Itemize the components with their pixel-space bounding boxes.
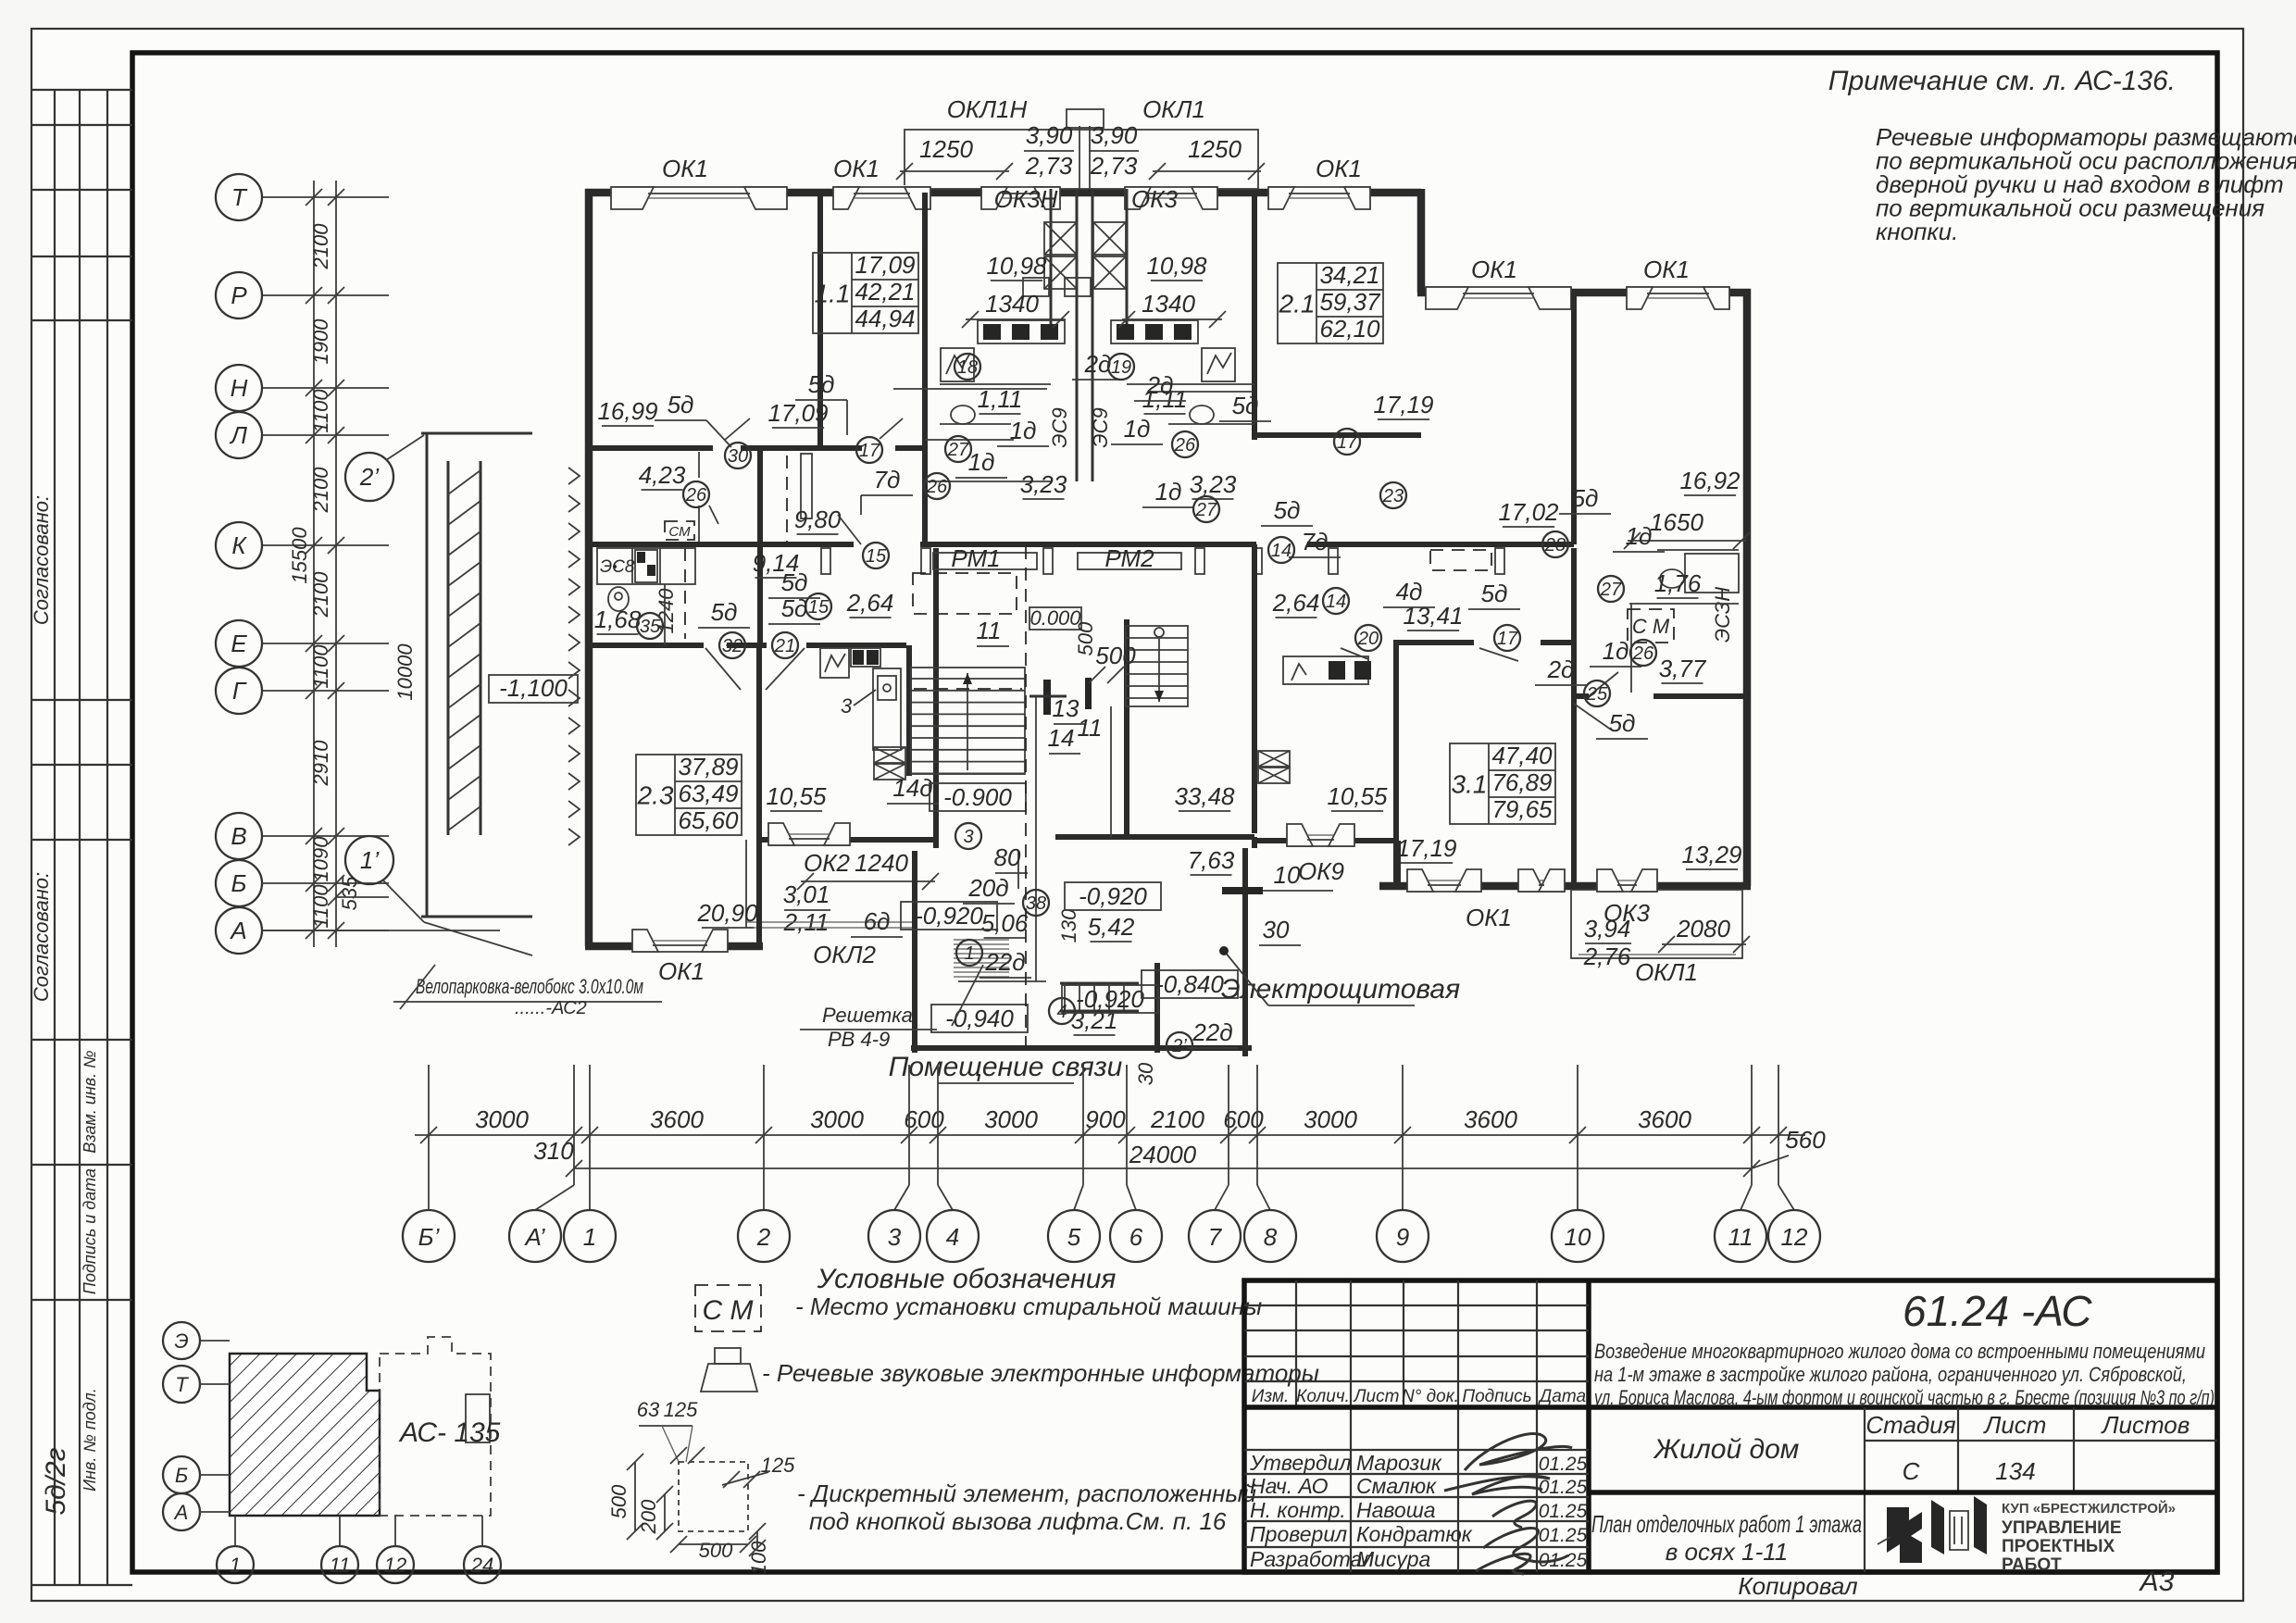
- svg-text:ЭС9: ЭС9: [1048, 407, 1071, 447]
- second staircase (right of center): [1126, 626, 1188, 706]
- svg-text:Взам. инв. №: Взам. инв. №: [81, 1050, 99, 1153]
- svg-text:17,19: 17,19: [1396, 834, 1456, 862]
- svg-text:38: 38: [1026, 893, 1046, 914]
- svg-text:на 1-м этаже в застройке жилог: на 1-м этаже в застройке жилого района, …: [1594, 1363, 2187, 1386]
- svg-text:Э: Э: [174, 1330, 188, 1353]
- svg-text:3,90: 3,90: [1091, 121, 1138, 149]
- svg-text:2д: 2д: [1547, 655, 1575, 683]
- svg-text:500: 500: [1074, 621, 1097, 655]
- svg-text:1100: 1100: [309, 644, 332, 689]
- svg-text:3,94: 3,94: [1584, 915, 1631, 943]
- svg-text:5,42: 5,42: [1088, 913, 1135, 941]
- bottom dimension chain line 1: [415, 1134, 1805, 1136]
- door tag 27: [1193, 496, 1219, 522]
- svg-text:13: 13: [1053, 694, 1079, 722]
- svg-text:1340: 1340: [1142, 290, 1195, 318]
- kitchen apt 2.3: vertical counter: [873, 668, 901, 750]
- axis line 6: [1126, 1065, 1128, 1185]
- svg-text:ОК1: ОК1: [1316, 155, 1362, 182]
- toilets upper units: [951, 406, 975, 424]
- axis circle Б’: [403, 1210, 455, 1262]
- axis circle 10: [1552, 1210, 1603, 1262]
- svg-text:3000: 3000: [984, 1105, 1038, 1133]
- door tag 27: [1598, 576, 1624, 602]
- svg-text:14: 14: [1326, 592, 1346, 612]
- svg-text:ОКЛ2: ОКЛ2: [813, 941, 876, 968]
- svg-text:Подпись: Подпись: [1462, 1387, 1531, 1406]
- axis К leader: [262, 544, 389, 546]
- door tag 17: [1494, 625, 1520, 651]
- legend discrete element symbol: [679, 1462, 748, 1531]
- svg-text:1д: 1д: [1626, 522, 1653, 550]
- axis circle 1: [564, 1210, 616, 1262]
- svg-text:13,29: 13,29: [1681, 841, 1741, 868]
- room 10,55R bottom wall with window ОК9: [1254, 838, 1398, 843]
- axis line 4: [937, 1065, 939, 1185]
- door tag 23: [1380, 482, 1406, 508]
- svg-text:3,01: 3,01: [783, 880, 830, 908]
- svg-text:С М: С М: [703, 1295, 754, 1326]
- svg-text:ОК3Н: ОК3Н: [994, 185, 1058, 213]
- door tag 2’: [1167, 1032, 1192, 1058]
- fridge zigzag upper-right: [1202, 348, 1235, 381]
- break marks along building wall: [568, 468, 580, 484]
- svg-text:1’: 1’: [360, 846, 380, 874]
- svg-text:2,73: 2,73: [1090, 152, 1138, 180]
- key plan right dashed part: [380, 1337, 491, 1516]
- ventilation X-boxes at shaft: [1044, 222, 1077, 255]
- svg-text:10: 10: [1565, 1223, 1591, 1251]
- svg-text:22д: 22д: [984, 948, 1025, 976]
- svg-text:15: 15: [808, 597, 830, 618]
- svg-text:2.3: 2.3: [637, 781, 674, 810]
- svg-text:5: 5: [1067, 1223, 1081, 1251]
- svg-text:РВ 4-9: РВ 4-9: [828, 1028, 890, 1051]
- axis circle 8: [1244, 1210, 1296, 1262]
- bath 4,23 partition: [698, 452, 700, 478]
- svg-text:14: 14: [1048, 724, 1075, 752]
- svg-text:- Дискретный элемент, располож: - Дискретный элемент, расположенный: [797, 1479, 1256, 1507]
- window: [833, 185, 930, 200]
- svg-text:11: 11: [1078, 714, 1103, 742]
- axis circle 6: [1110, 1210, 1162, 1262]
- svg-text:01.25: 01.25: [1539, 1477, 1588, 1498]
- top outer wall, left part: [585, 189, 1421, 197]
- svg-text:1100: 1100: [309, 884, 332, 929]
- wall crossing lintel mark: [1222, 887, 1263, 894]
- door tag 4: [1049, 998, 1075, 1024]
- svg-text:Кондратюк: Кондратюк: [1356, 1522, 1473, 1546]
- axis circle 2': [345, 453, 393, 501]
- stove block apt 2.3: [635, 550, 657, 582]
- WC right wall: [664, 584, 666, 645]
- axis circle 5: [1048, 1210, 1100, 1262]
- axis circle Т: [216, 174, 262, 220]
- window: [1518, 879, 1565, 893]
- svg-text:14: 14: [1271, 541, 1291, 561]
- svg-text:Н: Н: [231, 374, 248, 402]
- svg-text:20: 20: [1357, 629, 1379, 649]
- door tag 26: [1172, 431, 1198, 457]
- axis circle 11: [1715, 1210, 1766, 1262]
- svg-text:27: 27: [1600, 580, 1622, 600]
- door leafs apt 2.3: [705, 648, 741, 690]
- svg-text:ОК1: ОК1: [658, 957, 705, 985]
- wall below apartment 2.1: [1254, 432, 1421, 438]
- svg-text:5д: 5д: [781, 568, 808, 596]
- svg-text:27: 27: [1195, 500, 1217, 520]
- window: [981, 185, 1060, 200]
- svg-text:26: 26: [1174, 435, 1196, 456]
- svg-text:Лист: Лист: [1983, 1411, 2047, 1439]
- electro room walls: [1154, 963, 1160, 1053]
- svg-text:2,73: 2,73: [1025, 152, 1073, 180]
- level label -0,920: [901, 902, 997, 930]
- bath 3,77 partition: [1630, 604, 1632, 693]
- level label -0,940: [931, 1005, 1028, 1032]
- svg-text:10,98: 10,98: [986, 252, 1047, 280]
- stair landing door bars: [1043, 680, 1051, 715]
- apartment table 3.1: [1450, 743, 1555, 824]
- СМ dashed box apt 2.3: [665, 521, 694, 540]
- svg-text:15: 15: [866, 546, 887, 567]
- svg-text:Т: Т: [231, 183, 248, 211]
- svg-text:2,76: 2,76: [1583, 943, 1631, 970]
- svg-text:К: К: [231, 531, 247, 559]
- svg-text:20,90: 20,90: [696, 899, 758, 927]
- svg-text:4,23: 4,23: [639, 461, 686, 489]
- svg-text:5,06: 5,06: [981, 909, 1029, 937]
- door tag 28: [1542, 531, 1568, 557]
- svg-text:535: 535: [338, 876, 361, 910]
- svg-text:Проверил: Проверил: [1250, 1522, 1347, 1546]
- svg-text:24: 24: [470, 1554, 493, 1577]
- title block left table verticals: [1295, 1280, 1297, 1407]
- sanitary partition walls: [940, 383, 1051, 385]
- svg-text:Возведение многоквартирного жи: Возведение многоквартирного жилого дома …: [1594, 1340, 2205, 1363]
- svg-text:2,64: 2,64: [846, 589, 894, 617]
- svg-text:17,19: 17,19: [1373, 391, 1433, 418]
- key plan hatched building: [230, 1354, 367, 1367]
- svg-text:С М: С М: [1632, 615, 1670, 638]
- svg-text:1д: 1д: [1155, 478, 1182, 506]
- door tag 17: [856, 437, 882, 463]
- svg-text:1240: 1240: [855, 849, 908, 877]
- svg-text:4: 4: [946, 1223, 959, 1251]
- wall right of room 1.1: [922, 193, 928, 547]
- svg-text:КУП «БРЕСТЖИЛСТРОЙ»: КУП «БРЕСТЖИЛСТРОЙ»: [2002, 1500, 2176, 1517]
- axis А leader: [262, 930, 389, 931]
- wall left of room 9,80: [757, 447, 763, 645]
- svg-text:Колич.: Колич.: [1296, 1387, 1350, 1406]
- svg-text:-0,920: -0,920: [1079, 882, 1147, 910]
- svg-text:15500: 15500: [288, 527, 311, 584]
- door tag 32: [719, 632, 745, 658]
- svg-text:ОКЛ1Н: ОКЛ1Н: [947, 95, 1028, 123]
- logo КУП Брестжилстрой: [1887, 1507, 1922, 1563]
- window: [1125, 185, 1217, 200]
- svg-text:под кнопкой вызова лифта.См. п: под кнопкой вызова лифта.См. п. 16: [809, 1507, 1227, 1535]
- wall under corridor 13,41: [1394, 640, 1474, 645]
- svg-text:35: 35: [640, 617, 661, 637]
- svg-text:ЭС8: ЭС8: [600, 557, 635, 577]
- axis Г leader: [262, 690, 389, 692]
- svg-text:Примечание см. л. АС-136.: Примечание см. л. АС-136.: [1828, 66, 2176, 96]
- door tag 27: [945, 436, 971, 462]
- wall below 3,77 bath with door 25: [1574, 693, 1589, 699]
- svg-text:РМ1: РМ1: [951, 544, 1000, 572]
- axis circle 7: [1189, 1210, 1241, 1262]
- dashed datum vertical: [1025, 546, 1027, 1046]
- svg-text:28: 28: [1544, 535, 1566, 556]
- door tag 30: [725, 443, 751, 468]
- sanitary block walls left unit: [925, 439, 1014, 441]
- axis Л leader: [262, 434, 389, 436]
- svg-text:20д: 20д: [967, 874, 1008, 902]
- right outer wall: [1743, 289, 1752, 886]
- svg-text:23: 23: [1382, 486, 1404, 506]
- svg-text:Условные обозначения: Условные обозначения: [817, 1264, 1117, 1294]
- svg-text:Н. контр.: Н. контр.: [1250, 1498, 1346, 1522]
- axis Б leader: [262, 882, 389, 884]
- svg-text:62,10: 62,10: [1319, 315, 1380, 343]
- window: [1407, 879, 1481, 893]
- axis circle Е: [216, 620, 262, 667]
- svg-text:2’: 2’: [1171, 1036, 1187, 1056]
- key plan axis circles: [163, 1322, 200, 1359]
- door tag 19: [1108, 354, 1134, 380]
- room 3.1 left wall: [1393, 640, 1399, 886]
- svg-text:500: 500: [607, 1484, 630, 1518]
- stair to entrance: [1060, 982, 1139, 985]
- svg-text:16,92: 16,92: [1679, 467, 1741, 494]
- door tag 38: [1023, 890, 1049, 916]
- svg-text:-1,100: -1,100: [499, 674, 568, 702]
- svg-text:61.24 -АС: 61.24 -АС: [1903, 1287, 2092, 1335]
- svg-text:63: 63: [637, 1398, 660, 1421]
- svg-text:Мисура: Мисура: [1356, 1547, 1430, 1571]
- svg-text:А: А: [173, 1501, 189, 1524]
- svg-text:ОК1: ОК1: [662, 155, 708, 182]
- svg-text:Стадия: Стадия: [1865, 1411, 1955, 1439]
- door tag 26: [924, 473, 950, 499]
- svg-text:ОКЛ1: ОКЛ1: [1142, 95, 1205, 123]
- window: [1426, 285, 1571, 300]
- title block left table horizontals: [1244, 1305, 1589, 1306]
- axis line 11: [1751, 1065, 1753, 1185]
- door tag 35: [637, 613, 663, 639]
- long corridor wall, left segment: [593, 542, 854, 547]
- svg-text:Лист: Лист: [1353, 1387, 1400, 1406]
- window: [632, 939, 728, 954]
- signature scribbles: [1465, 1433, 1572, 1470]
- svg-text:ОК9: ОК9: [1298, 857, 1344, 885]
- датум 0.000: [1029, 607, 1081, 630]
- corridor wall pilasters: [821, 548, 830, 574]
- svg-text:3,23: 3,23: [1020, 470, 1067, 498]
- legend СМ symbol: [695, 1285, 761, 1331]
- svg-text:5д: 5д: [668, 391, 694, 418]
- communications room inner walls: [1017, 851, 1019, 889]
- hallway wall apt 2.3 with doors 32/21: [589, 643, 704, 648]
- kitchen apt 2.3: sink unit dark squares: [851, 648, 880, 667]
- svg-text:АС- 135: АС- 135: [398, 1417, 501, 1448]
- svg-text:19: 19: [1111, 357, 1131, 378]
- axis line А’: [573, 1065, 575, 1185]
- svg-text:3600: 3600: [1464, 1105, 1517, 1133]
- svg-text:11: 11: [1728, 1223, 1753, 1251]
- svg-text:- Место установки стиральной м: - Место установки стиральной машины: [795, 1292, 1262, 1320]
- svg-text:7: 7: [1208, 1223, 1223, 1251]
- window: [1627, 285, 1729, 300]
- legend speaker symbol: [715, 1348, 741, 1364]
- elevator shaft walls: [1076, 189, 1079, 481]
- svg-text:7д: 7д: [874, 466, 901, 493]
- svg-text:79,65: 79,65: [1491, 795, 1553, 823]
- axis line 3: [908, 1065, 910, 1185]
- svg-text:2.1: 2.1: [1279, 290, 1316, 318]
- svg-text:ЭСЗН: ЭСЗН: [1711, 587, 1734, 643]
- svg-text:3,77: 3,77: [1659, 655, 1707, 682]
- apartment table 2.3: [636, 755, 742, 835]
- door tag 25: [1584, 680, 1610, 706]
- svg-text:25: 25: [1586, 684, 1608, 705]
- svg-text:Согласовано:: Согласовано:: [30, 495, 53, 625]
- counter block ЭС8 row: [597, 548, 695, 584]
- level label -1,100: [489, 675, 578, 703]
- long corridor wall, right segment: [1307, 542, 1574, 547]
- balcony ОКЛ1 glazing: [1578, 954, 1736, 955]
- velo box hatched ramp strip: [447, 461, 450, 835]
- svg-text:СМ: СМ: [668, 524, 691, 540]
- svg-text:01.25: 01.25: [1539, 1501, 1588, 1522]
- svg-text:Б: Б: [175, 1464, 188, 1487]
- svg-text:2100: 2100: [309, 223, 332, 270]
- axis line 1: [589, 1065, 591, 1185]
- axis circle Б: [216, 860, 262, 906]
- svg-text:1д: 1д: [1010, 417, 1037, 444]
- svg-text:-0.900: -0.900: [943, 783, 1012, 811]
- svg-text:Р: Р: [231, 281, 247, 309]
- level label -0.900: [930, 783, 1026, 811]
- svg-text:Смалюк: Смалюк: [1356, 1474, 1437, 1498]
- svg-text:ОКЛ1: ОКЛ1: [1635, 958, 1698, 986]
- svg-text:Нач. АО: Нач. АО: [1250, 1474, 1329, 1498]
- svg-text:17,02: 17,02: [1498, 498, 1559, 526]
- kitchen counter row upper-left: [978, 320, 1065, 343]
- top-right step wall: [1417, 189, 1426, 293]
- svg-text:РМ2: РМ2: [1104, 544, 1154, 572]
- svg-text:Помещение связи: Помещение связи: [889, 1052, 1123, 1082]
- svg-text:УПРАВЛЕНИЕ: УПРАВЛЕНИЕ: [2002, 1518, 2122, 1538]
- axis circle 4: [927, 1210, 979, 1262]
- window: [611, 185, 787, 200]
- window: [1287, 833, 1354, 848]
- svg-text:2д: 2д: [1146, 371, 1174, 399]
- svg-text:кнопки.: кнопки.: [1876, 218, 1958, 245]
- svg-text:500: 500: [1095, 642, 1136, 669]
- wall between 17,02 and 16,92: [1571, 293, 1577, 544]
- svg-text:А’: А’: [523, 1223, 545, 1251]
- svg-text:27: 27: [947, 440, 969, 460]
- svg-text:17: 17: [1497, 629, 1518, 649]
- svg-text:Марозик: Марозик: [1356, 1451, 1442, 1475]
- room 3.1 wall vertical: [1571, 548, 1577, 886]
- axis Т leader: [262, 196, 389, 198]
- svg-text:Подпись и дата: Подпись и дата: [81, 1168, 99, 1294]
- kitchen counter mid-right: [1283, 656, 1368, 684]
- axis line 9: [1402, 1065, 1404, 1185]
- title block outer: [1244, 1280, 2217, 1572]
- svg-text:42,21: 42,21: [855, 278, 915, 306]
- svg-text:-0,840: -0,840: [1155, 970, 1224, 998]
- svg-text:5д: 5д: [711, 598, 738, 626]
- svg-text:......-АС2: ......-АС2: [515, 998, 587, 1018]
- svg-text:В: В: [231, 822, 246, 850]
- svg-text:3600: 3600: [1638, 1105, 1691, 1133]
- svg-text:2’: 2’: [359, 463, 380, 491]
- svg-text:-0,920: -0,920: [915, 902, 983, 930]
- dashed closet line: [786, 456, 788, 543]
- svg-text:2: 2: [756, 1223, 771, 1251]
- svg-text:2д: 2д: [1084, 350, 1112, 378]
- svg-text:ОК3: ОК3: [1131, 185, 1179, 213]
- window: [768, 832, 850, 847]
- svg-text:10,55: 10,55: [1327, 782, 1388, 810]
- svg-text:1.1: 1.1: [815, 280, 851, 308]
- entrance vestibule left wall: [912, 851, 917, 1053]
- svg-text:ОК1: ОК1: [833, 155, 880, 182]
- svg-text:Копировал: Копировал: [1738, 1572, 1858, 1600]
- door tag 14: [1323, 588, 1349, 614]
- kitchen apt 2.3: fridge zigzag: [820, 648, 849, 678]
- dashed wardrobe rects: [1430, 550, 1491, 570]
- svg-text:Жилой дом: Жилой дом: [1653, 1434, 1800, 1465]
- svg-text:26: 26: [1632, 643, 1654, 664]
- svg-text:1250: 1250: [919, 135, 973, 163]
- svg-text:ОК1: ОК1: [1471, 256, 1517, 283]
- svg-text:2100: 2100: [1150, 1105, 1204, 1133]
- svg-text:11: 11: [977, 617, 1002, 644]
- wall under room 17,09: [820, 445, 862, 451]
- svg-text:3.1: 3.1: [1452, 770, 1488, 799]
- axis circle 3: [868, 1210, 920, 1262]
- svg-text:47,40: 47,40: [1491, 742, 1553, 769]
- svg-text:2100: 2100: [309, 571, 332, 618]
- svg-text:5д: 5д: [1609, 709, 1636, 737]
- svg-text:3: 3: [888, 1223, 902, 1251]
- svg-text:РАБОТ: РАБОТ: [2002, 1555, 2062, 1575]
- svg-text:в осях 1-11: в осях 1-11: [1666, 1538, 1788, 1566]
- svg-text:5д: 5д: [781, 594, 808, 622]
- door tag 26: [1630, 640, 1656, 666]
- svg-text:560: 560: [1785, 1126, 1826, 1154]
- svg-text:1д: 1д: [968, 448, 995, 476]
- axis circle Г: [216, 668, 262, 714]
- X-boxes mid kitchens: [874, 747, 905, 763]
- door tag 18: [955, 354, 980, 380]
- svg-text:18: 18: [957, 357, 978, 378]
- main staircase (left of center): [911, 668, 1025, 774]
- window: [1597, 879, 1657, 893]
- bottom dimension chain line 2 (24000): [574, 1167, 1752, 1169]
- svg-text:Инв. № подл.: Инв. № подл.: [81, 1388, 99, 1492]
- axis circle 9: [1377, 1210, 1429, 1262]
- stairwell walls: [906, 645, 912, 776]
- velo box outer wall: [426, 433, 429, 917]
- axis Н leader: [262, 387, 389, 389]
- window: [1268, 185, 1370, 200]
